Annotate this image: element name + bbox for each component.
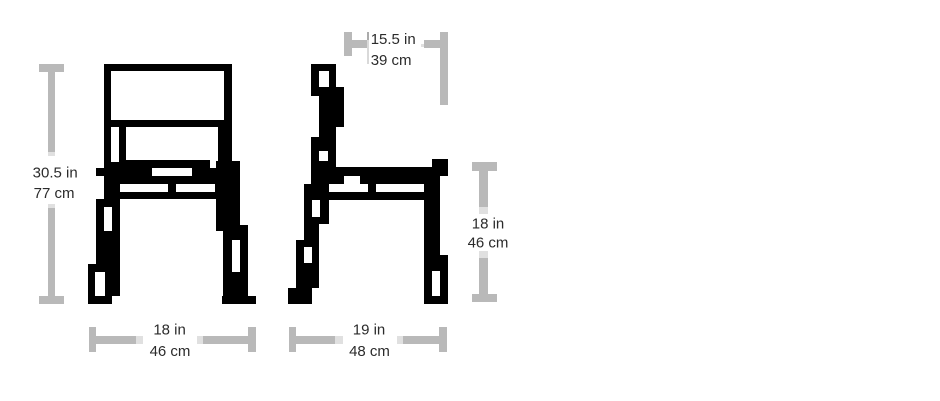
svg-text:30.5 in: 30.5 in	[33, 165, 78, 182]
svg-text:39 cm: 39 cm	[371, 52, 412, 69]
svg-text:18 in: 18 in	[472, 216, 505, 233]
svg-text:19 in: 19 in	[353, 322, 386, 339]
svg-text:46 cm: 46 cm	[150, 343, 191, 360]
svg-text:77 cm: 77 cm	[34, 185, 75, 202]
svg-text:46 cm: 46 cm	[468, 234, 509, 251]
svg-text:18 in: 18 in	[153, 322, 186, 339]
svg-text:48 cm: 48 cm	[349, 343, 390, 360]
svg-text:15.5 in: 15.5 in	[371, 31, 416, 48]
